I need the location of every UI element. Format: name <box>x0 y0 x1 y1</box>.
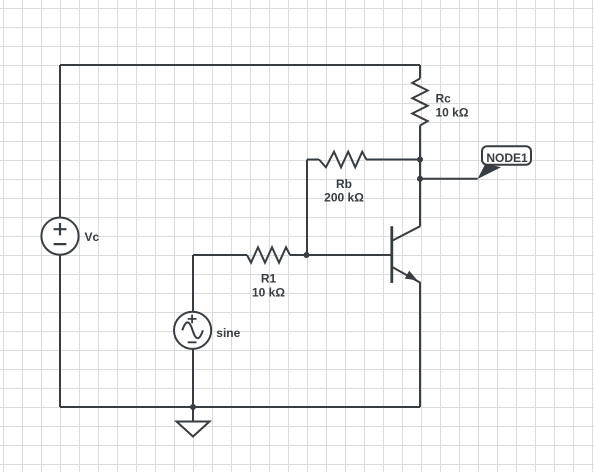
svg-text:10 kΩ: 10 kΩ <box>436 106 469 120</box>
svg-text:Rb: Rb <box>336 177 352 191</box>
svg-text:Rc: Rc <box>436 91 452 105</box>
svg-text:200 kΩ: 200 kΩ <box>324 190 364 204</box>
svg-text:R1: R1 <box>261 272 277 286</box>
svg-text:sine: sine <box>216 326 240 340</box>
svg-text:10 kΩ: 10 kΩ <box>252 285 285 299</box>
svg-text:Vc: Vc <box>85 230 100 244</box>
svg-text:NODE1: NODE1 <box>486 151 528 165</box>
